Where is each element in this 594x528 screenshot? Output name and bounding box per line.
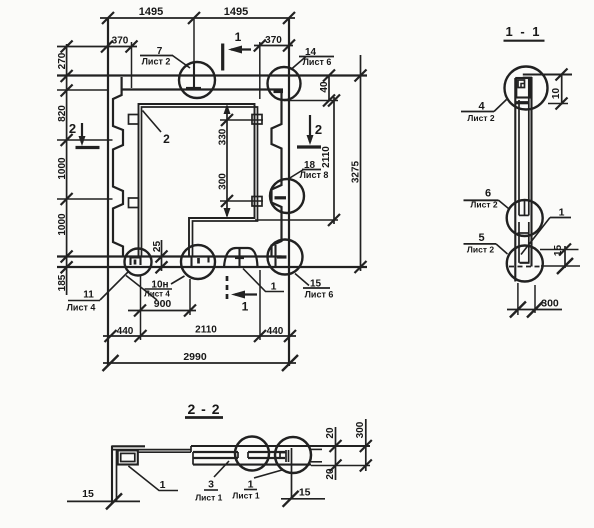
section 2-2: right dims 20/300/20 xyxy=(335,427,337,480)
section 2-2: detail circle 1 xyxy=(275,437,311,473)
svg-text:820: 820 xyxy=(57,105,68,122)
plan: 370 left extension xyxy=(131,42,133,88)
svg-text:1000: 1000 xyxy=(57,157,68,180)
plan: 370 right extension xyxy=(259,42,261,99)
svg-text:1: 1 xyxy=(271,281,277,293)
svg-text:15: 15 xyxy=(553,245,564,257)
section 2-2: title underline xyxy=(185,416,223,419)
svg-text:2: 2 xyxy=(315,122,322,137)
svg-text:Лист 8: Лист 8 xyxy=(300,170,329,180)
plan: centre extension to top dim xyxy=(193,18,195,76)
section 1-1: 15 dim xyxy=(540,249,579,251)
svg-text:11: 11 xyxy=(83,290,94,301)
section 1-1: detail circle 6 xyxy=(507,200,543,236)
plan: leader for detail 11 xyxy=(100,272,129,301)
section 2-2: label underlines xyxy=(145,288,173,290)
svg-text:Лист 4: Лист 4 xyxy=(67,303,96,313)
plan: callout circle 14 top right xyxy=(268,67,301,100)
plan wall: top outer edge xyxy=(57,74,367,76)
section 1-1: leader 6 xyxy=(499,200,509,208)
plan: tie square top-left xyxy=(129,115,139,125)
svg-text:Лист 1: Лист 1 xyxy=(195,493,222,503)
plan wall: right inner profile with piers xyxy=(272,92,282,257)
section 2-2: 15 left dim xyxy=(67,500,140,502)
plan: callout circle 7 top centre xyxy=(179,62,215,98)
svg-text:4: 4 xyxy=(478,101,485,113)
section 2-2: detail circle 3 xyxy=(235,437,269,471)
svg-text:1495: 1495 xyxy=(224,6,248,18)
section 1-1 labels xyxy=(467,24,565,310)
svg-text:20: 20 xyxy=(325,468,336,480)
plan: tie square top-right xyxy=(252,115,262,125)
svg-text:2110: 2110 xyxy=(321,146,332,168)
plan: 370 right dim line xyxy=(254,45,293,47)
section 1-1: 300 dim xyxy=(517,283,519,315)
plan: leader for detail 18 xyxy=(302,169,321,171)
plan: left extension lines xyxy=(57,139,113,141)
section 1-1: top cap detail xyxy=(523,73,572,75)
plan: tie square bottom-left xyxy=(129,198,139,208)
plan: 370 left dim line xyxy=(57,46,137,48)
svg-text:370: 370 xyxy=(112,36,129,47)
plan: inner slab contour (second line) xyxy=(142,107,258,257)
svg-text:Лист 6: Лист 6 xyxy=(303,57,332,67)
plan wall: bottom inner edge xyxy=(57,255,282,257)
plan: section mark 1 top xyxy=(221,44,224,71)
section 1-1: title underline xyxy=(504,40,545,42)
svg-text:15: 15 xyxy=(310,279,322,290)
section 2-2 labels xyxy=(82,401,366,503)
plan: leader for callout 1 xyxy=(243,269,284,292)
svg-text:1 - 1: 1 - 1 xyxy=(505,24,541,39)
plan: leader second diag bottom left xyxy=(126,276,157,301)
section 1-1: detail circle 4 xyxy=(505,67,548,110)
plan: leader for detail 14 xyxy=(299,56,334,58)
svg-text:1: 1 xyxy=(160,479,166,491)
section 1-1: leader 4 xyxy=(494,100,507,112)
plan: leader for detail 2 xyxy=(143,111,162,133)
section 1-1: 10 dim xyxy=(556,69,568,81)
plan: callout circle 18 mid right xyxy=(270,179,304,213)
plan: 25 dim xyxy=(161,240,163,271)
svg-text:440: 440 xyxy=(117,326,134,337)
section 2-2: panel band xyxy=(191,445,370,447)
plan: 2990 dim line xyxy=(103,362,296,364)
section 2-2: leader 3 xyxy=(214,461,229,477)
section 2-2: left wall end xyxy=(111,446,113,504)
plan: section mark 2 right xyxy=(309,115,311,142)
section 2-2: leader 1 left xyxy=(128,466,178,491)
plan: section mark 2 left xyxy=(81,123,83,143)
plan: top dimension line 1495+1495 xyxy=(100,17,295,19)
svg-text:1: 1 xyxy=(559,207,565,219)
plan: 3275 dim line xyxy=(360,55,362,271)
plan: leader for detail 10n xyxy=(171,276,185,284)
section 1-1: wall verticals xyxy=(514,78,516,282)
svg-text:1495: 1495 xyxy=(139,6,163,18)
svg-text:Лист 1: Лист 1 xyxy=(232,491,259,501)
plan: callout circle 15 bottom right xyxy=(268,240,303,275)
section 2-2: 15 right dim xyxy=(281,498,325,500)
svg-text:25: 25 xyxy=(152,241,163,253)
svg-text:1: 1 xyxy=(248,479,254,491)
svg-text:15: 15 xyxy=(82,488,94,500)
svg-text:Лист 6: Лист 6 xyxy=(305,290,334,300)
svg-text:300: 300 xyxy=(541,298,559,310)
plan: 330/300 dim line xyxy=(226,106,228,216)
svg-text:Лист 2: Лист 2 xyxy=(142,57,171,67)
plan wall: bottom outer edge xyxy=(57,266,367,268)
plan wall: top inner edge xyxy=(57,89,107,91)
svg-text:900: 900 xyxy=(154,298,172,310)
svg-text:Лист 2: Лист 2 xyxy=(467,113,494,123)
section 2-2: leader 1 right xyxy=(254,470,282,478)
plan: inner slab contour (outer line) xyxy=(139,104,255,257)
svg-text:Лист 2: Лист 2 xyxy=(467,245,494,255)
text labels xyxy=(139,6,248,18)
svg-text:2110: 2110 xyxy=(195,325,217,336)
svg-text:300: 300 xyxy=(355,421,366,438)
svg-text:1000: 1000 xyxy=(57,213,68,236)
svg-text:1: 1 xyxy=(235,30,242,44)
svg-text:7: 7 xyxy=(157,46,163,57)
svg-text:440: 440 xyxy=(267,326,284,337)
plan wall: right outer edge xyxy=(288,18,290,366)
svg-text:300: 300 xyxy=(218,173,229,190)
svg-text:370: 370 xyxy=(265,35,282,46)
svg-text:3: 3 xyxy=(208,479,214,491)
plan: 900 dim line xyxy=(128,310,196,312)
plan: section mark 1 bottom xyxy=(226,276,229,300)
section 2-2: left box detail xyxy=(118,450,138,464)
plan: callout circle 10n bottom centre xyxy=(181,245,215,279)
plan: 440/2110/440 dim line xyxy=(103,335,296,337)
svg-text:10: 10 xyxy=(551,88,562,100)
svg-text:3275: 3275 xyxy=(351,160,362,183)
plan wall: left outer edge xyxy=(107,18,109,366)
svg-text:2 - 2: 2 - 2 xyxy=(187,401,220,417)
plan: hump detail 1 xyxy=(224,248,258,267)
plan: left dimension column xyxy=(66,44,68,295)
section 1-1: detail circle 5 xyxy=(507,246,543,282)
section 1-1: leader 5 xyxy=(496,244,508,254)
plan: 2110 dim line right xyxy=(333,97,335,224)
plan wall: left inner profile with pilasters xyxy=(113,77,123,257)
svg-text:330: 330 xyxy=(218,128,229,145)
plan: 40 dim right xyxy=(328,76,330,101)
svg-text:20: 20 xyxy=(325,427,336,439)
svg-text:2: 2 xyxy=(69,121,76,136)
svg-text:2990: 2990 xyxy=(183,351,207,363)
svg-text:15: 15 xyxy=(299,487,311,499)
plan: tie square bottom-right xyxy=(252,197,262,207)
svg-text:5: 5 xyxy=(478,232,484,244)
section 2-2: joint detail xyxy=(237,452,239,458)
plan: bottom extension lines xyxy=(140,275,142,340)
svg-text:270: 270 xyxy=(57,52,68,69)
svg-text:2: 2 xyxy=(163,132,170,146)
plan: leader for detail 15 xyxy=(303,287,330,289)
section 1-1: leader 1 right xyxy=(521,218,550,255)
svg-text:Лист 2: Лист 2 xyxy=(470,200,497,210)
svg-text:6: 6 xyxy=(485,188,491,200)
plan: callout circle 11 bottom left xyxy=(125,249,152,276)
svg-text:40: 40 xyxy=(319,81,330,93)
svg-text:1: 1 xyxy=(242,300,249,314)
plan: leader for detail 7 xyxy=(140,55,173,57)
svg-text:185: 185 xyxy=(57,274,68,291)
